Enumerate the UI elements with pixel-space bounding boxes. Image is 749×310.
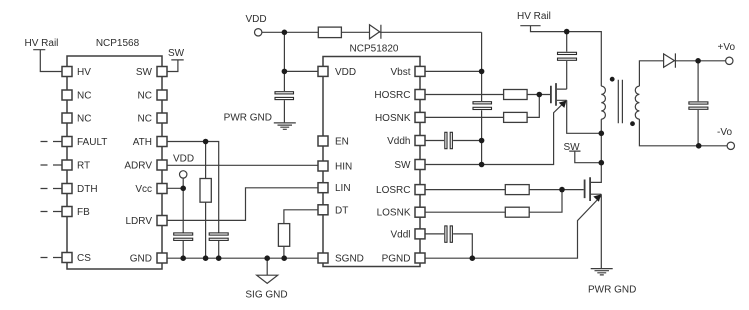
svg-text:NC: NC xyxy=(77,114,91,125)
svg-text:DTH: DTH xyxy=(77,184,98,195)
svg-text:LOSNK: LOSNK xyxy=(377,208,411,219)
svg-text:LOSRC: LOSRC xyxy=(376,185,410,196)
svg-text:SW: SW xyxy=(168,48,185,59)
svg-text:PWR GND: PWR GND xyxy=(588,285,636,296)
svg-text:Vddh: Vddh xyxy=(387,136,410,147)
svg-text:NCP1568: NCP1568 xyxy=(96,38,140,49)
svg-text:DT: DT xyxy=(335,205,348,216)
svg-text:Vbst: Vbst xyxy=(390,67,410,78)
svg-text:RT: RT xyxy=(77,161,90,172)
svg-text:HOSNK: HOSNK xyxy=(375,113,411,124)
svg-text:HOSRC: HOSRC xyxy=(374,90,410,101)
svg-text:EN: EN xyxy=(335,137,349,148)
svg-text:NC: NC xyxy=(138,114,152,125)
svg-text:HV Rail: HV Rail xyxy=(25,38,59,49)
svg-text:-Vo: -Vo xyxy=(717,127,732,138)
svg-text:NCP51820: NCP51820 xyxy=(350,44,399,55)
svg-text:PGND: PGND xyxy=(382,254,411,265)
svg-text:FB: FB xyxy=(77,207,90,218)
svg-text:VDD: VDD xyxy=(246,14,267,25)
svg-text:ATH: ATH xyxy=(133,137,152,148)
svg-text:Vddl: Vddl xyxy=(390,229,410,240)
svg-text:+Vo: +Vo xyxy=(718,42,736,53)
svg-text:SIG GND: SIG GND xyxy=(245,290,287,301)
svg-text:LIN: LIN xyxy=(335,183,351,194)
svg-text:HV: HV xyxy=(77,67,91,78)
svg-text:HV Rail: HV Rail xyxy=(517,11,551,22)
svg-text:FAULT: FAULT xyxy=(77,137,107,148)
svg-text:CS: CS xyxy=(77,253,91,264)
svg-text:SW: SW xyxy=(136,67,153,78)
svg-text:SW: SW xyxy=(394,160,411,171)
svg-text:HIN: HIN xyxy=(335,162,352,173)
svg-text:NC: NC xyxy=(138,91,152,102)
svg-text:NC: NC xyxy=(77,91,91,102)
svg-text:ADRV: ADRV xyxy=(124,161,152,172)
svg-text:PWR GND: PWR GND xyxy=(224,112,272,123)
svg-text:LDRV: LDRV xyxy=(126,216,153,227)
svg-text:VDD: VDD xyxy=(335,67,356,78)
svg-text:GND: GND xyxy=(130,254,152,265)
svg-text:VDD: VDD xyxy=(173,154,194,165)
svg-text:Vcc: Vcc xyxy=(135,184,152,195)
svg-text:SGND: SGND xyxy=(335,254,364,265)
